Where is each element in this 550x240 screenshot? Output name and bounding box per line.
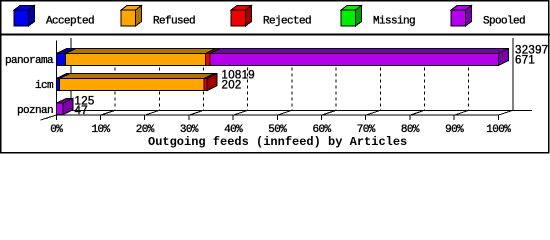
svg-text:20%: 20%: [136, 124, 155, 136]
panorama purple front segment (spooled): [210, 54, 498, 66]
panorama purple side face: [498, 49, 508, 66]
gridline 50%: [291, 50, 293, 111]
icm red side face: [207, 74, 217, 91]
icm orange front segment (refused): [59, 79, 204, 91]
poznan purple side face: [63, 98, 73, 114]
icm red front segment (rejected): [204, 79, 207, 91]
back-right wall vertical (100% back): [512, 38, 514, 110]
svg-text:0%: 0%: [50, 124, 63, 136]
0% corner depth diagonal / long tick: [41, 110, 71, 120]
gridline 70%: [379, 50, 381, 111]
svg-text:Outgoing feeds (innfeed) by Ar: Outgoing feeds (innfeed) by Articles: [148, 135, 407, 149]
svg-text:80%: 80%: [401, 124, 420, 136]
svg-text:90%: 90%: [445, 124, 464, 136]
gridline 20%: [158, 50, 160, 111]
dashed gridlines 10%-90% (back plane): [115, 50, 469, 111]
tick 0%: [55, 115, 57, 120]
legend cube Spooled (purple): [451, 6, 472, 27]
poznan purple top face: [56, 98, 73, 103]
tick 20%: [145, 110, 160, 115]
outer border frame: [1, 1, 549, 153]
svg-text:Spooled: Spooled: [483, 16, 525, 28]
icm blue top face: [56, 74, 69, 79]
svg-text:poznan: poznan: [17, 105, 53, 117]
svg-text:60%: 60%: [312, 124, 331, 136]
svg-text:icm: icm: [35, 80, 54, 92]
axis frame: [41, 38, 532, 120]
svg-text:50%: 50%: [268, 124, 287, 136]
tick 10%: [101, 110, 116, 115]
x-axis percent labels: [50, 124, 511, 136]
legend divider line: [0, 34, 550, 36]
tick 100%: [498, 110, 513, 115]
panorama purple top face: [210, 49, 508, 54]
panorama red front segment (rejected): [205, 54, 210, 66]
front-left y-axis vertical: [55, 41, 57, 116]
icm red top face: [204, 74, 217, 79]
svg-text:Refused: Refused: [153, 16, 195, 28]
gridline 10%: [114, 50, 116, 111]
svg-text:202: 202: [222, 79, 242, 91]
svg-text:10%: 10%: [91, 124, 110, 136]
svg-text:100%: 100%: [486, 124, 511, 136]
legend cube Missing (green): [341, 6, 362, 27]
front x-axis line: [56, 114, 498, 116]
back x-axis line: [71, 109, 532, 111]
legend cube Rejected (red): [231, 6, 252, 27]
gridline 60%: [335, 50, 337, 111]
panorama blue top face: [56, 49, 75, 54]
tick 70%: [366, 110, 381, 115]
svg-text:70%: 70%: [357, 124, 376, 136]
legend cube Refused (orange): [121, 6, 142, 27]
panorama blue front segment (accepted): [56, 54, 65, 66]
gridline 40%: [247, 50, 249, 111]
icm orange top face: [59, 74, 214, 79]
panorama red top face: [205, 49, 220, 54]
back-left wall vertical (0% back): [70, 38, 72, 110]
tick 80%: [410, 110, 425, 115]
tick 90%: [454, 110, 469, 115]
svg-text:671: 671: [515, 54, 535, 66]
tick 40%: [233, 110, 248, 115]
gridline 80%: [424, 50, 426, 111]
svg-text:30%: 30%: [180, 124, 199, 136]
poznan purple front segment (spooled): [56, 103, 63, 114]
icm blue front segment (accepted): [56, 79, 59, 91]
svg-text:Accepted: Accepted: [46, 16, 94, 28]
gridline 90%: [468, 50, 470, 111]
panorama orange front segment (refused): [66, 54, 206, 66]
ticks: depth diagonals and front tick stubs: [56, 110, 513, 120]
legend cube Accepted (blue): [14, 6, 35, 27]
gridline 30%: [203, 50, 205, 111]
svg-text:40%: 40%: [224, 124, 243, 136]
svg-text:Rejected: Rejected: [263, 16, 311, 28]
svg-text:Missing: Missing: [373, 16, 415, 28]
tick 50%: [277, 110, 292, 115]
panorama orange top face: [66, 49, 216, 54]
tick 60%: [322, 110, 337, 115]
tick 30%: [189, 110, 204, 115]
svg-text:47: 47: [75, 105, 88, 117]
svg-text:panorama: panorama: [5, 55, 54, 67]
